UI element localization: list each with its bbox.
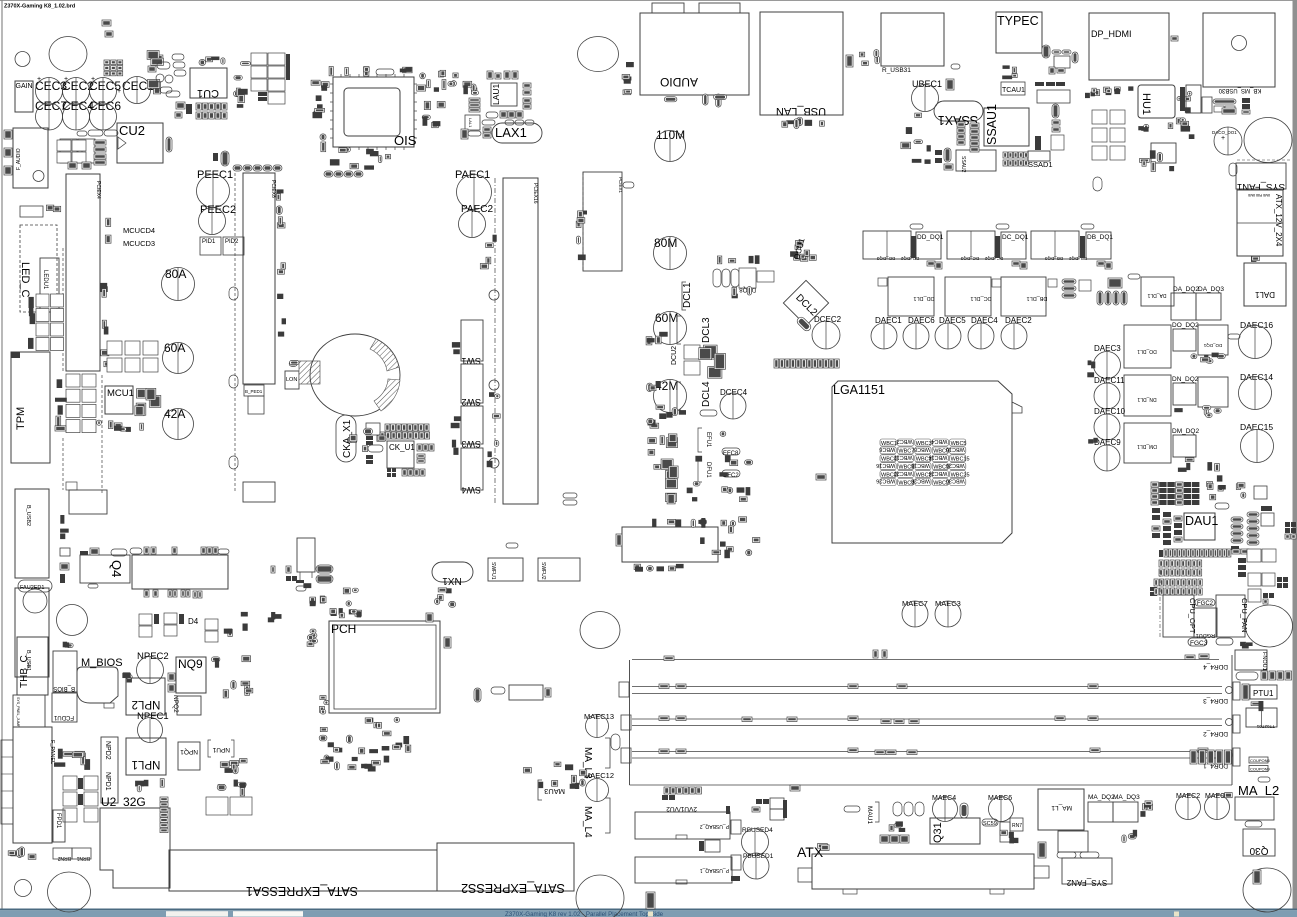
status bar button 1 (166, 911, 228, 916)
component right of DP_HDMI (1171, 36, 1178, 41)
svg-text:CPU_OPT: CPU_OPT (1188, 598, 1197, 634)
component NPU1 (208, 740, 234, 757)
svg-text:PCIEX1: PCIEX1 (618, 177, 623, 194)
svg-text:WBC3: WBC3 (916, 441, 932, 447)
resistor grid WBC (876, 438, 969, 486)
component DBC16 stadium (376, 69, 394, 75)
component cluster NE of DAU1 (1207, 475, 1246, 500)
component DQ3/DQ8 block (60, 139, 106, 165)
component IAD1 (1000, 822, 1010, 842)
component PAD bits left (1150, 587, 1157, 596)
IC LAU1 (491, 83, 517, 106)
connector U2_32G (100, 795, 170, 888)
component rotated stadium near DCL2 (796, 316, 813, 333)
connector B_USB2 (15, 489, 49, 578)
connector SYS_FAN1 (1236, 163, 1286, 192)
svg-text:EFU1: EFU1 (705, 432, 711, 448)
capacitor DAEC14 (1239, 372, 1274, 410)
component bits below DD_DQ1 (927, 261, 942, 269)
component cluster below PCH (319, 717, 411, 771)
IC DACCL1 (1151, 143, 1176, 163)
component cluster above OIS (329, 67, 412, 77)
svg-text:DCU2: DCU2 (671, 346, 678, 365)
svg-text:R_USB31: R_USB31 (882, 67, 911, 74)
IC NPL1 (126, 738, 166, 775)
capacitor NPEC2 (137, 651, 169, 684)
svg-text:ATX_12V_2X4: ATX_12V_2X4 (1274, 194, 1283, 247)
svg-text:DB_DQ1: DB_DQ1 (1087, 234, 1113, 241)
component cluster MCU mid (97, 420, 113, 429)
capacitor DAEC10 (1094, 407, 1126, 440)
component PCM stadium (1258, 777, 1270, 782)
svg-text:B_BIOS: B_BIOS (53, 685, 75, 691)
component cluster right of TYPEC (1042, 45, 1078, 74)
component dark box above SSAX1 (946, 64, 960, 90)
component right of USB_LAN (846, 55, 853, 67)
component column right of slot A (100, 218, 111, 366)
capacitor DAEC3 (1094, 344, 1122, 379)
svg-text:60M: 60M (655, 311, 678, 325)
capacitor DAEC16 (1239, 320, 1274, 359)
component BRN2 BRN1 (53, 848, 91, 861)
component LHD06 stadium (700, 410, 717, 416)
capacitor PEEC1 (197, 169, 234, 208)
capacitor MAEC12 (584, 771, 614, 802)
connector RGDU1 (1194, 608, 1217, 638)
IC MA_L1 (1038, 789, 1084, 830)
transistor Q31 (930, 818, 980, 844)
svg-text:USB_LAN: USB_LAN (776, 105, 826, 117)
svg-text:DA_DL1: DA_DL1 (1147, 292, 1166, 298)
IC MCU1 (105, 386, 134, 414)
component above PCH single (426, 613, 433, 622)
svg-text:WBC5: WBC5 (951, 441, 967, 447)
capacitor DCEC4 (720, 388, 748, 419)
svg-text:SYS_FAN2: SYS_FAN2 (1066, 878, 1107, 887)
svg-text:SW1: SW1 (461, 356, 481, 366)
mounting hole bottom-right (1243, 868, 1291, 912)
slot PCIEX1 (583, 172, 623, 271)
component pads right of CK_U1 (417, 444, 434, 463)
connector TYPEC (996, 12, 1042, 53)
component stadium right of slot E (623, 182, 634, 188)
component above PCH right (435, 595, 456, 608)
svg-text:SSAD1: SSAD1 (1028, 160, 1053, 169)
wire dash-dot left of slot D (494, 178, 496, 504)
IC LAL1 (461, 115, 481, 139)
component rows below vbox (303, 583, 358, 606)
F_AUDIO pin pads (4, 130, 12, 175)
label CKA_X1 stadium (336, 415, 356, 462)
svg-text:Q31: Q31 (932, 822, 944, 843)
capacitor MAEC6 (988, 795, 1014, 822)
svg-text:GAIN: GAIN (16, 83, 33, 90)
component LAX1 crystal (483, 123, 542, 143)
svg-text:U2_32G: U2_32G (101, 795, 146, 809)
svg-text:2VU1/VU2: 2VU1/VU2 (666, 805, 697, 812)
svg-text:LAL1: LAL1 (468, 118, 473, 128)
connector RGD bottom (1058, 831, 1088, 852)
svg-text:DO_DQ2: DO_DQ2 (1172, 322, 1199, 329)
connector AUDIO (640, 3, 749, 95)
IC DAU1 (1184, 513, 1218, 540)
capacitor round small 2 (489, 380, 499, 390)
IC MA_L2 (1235, 783, 1279, 820)
component cluster right of SSAU1 (1035, 82, 1070, 150)
component box mid-left (69, 490, 107, 514)
component rows right of NQ9 (211, 656, 252, 698)
capacitor PAEC1 (455, 169, 492, 210)
label column MXC (28, 297, 35, 349)
window top border (0, 0, 1297, 2)
capacitor MAEC2 (1176, 793, 1201, 820)
IC DD_DQ1 (916, 232, 944, 259)
component DFC2 (722, 470, 740, 479)
IC LOY2 boxes (1247, 549, 1276, 602)
component small box left (20, 206, 43, 217)
component cluster mid of LAU1 (463, 81, 479, 95)
svg-text:WBC12: WBC12 (894, 454, 913, 460)
component grid OQ bank (251, 53, 290, 104)
svg-text:SWFU2: SWFU2 (540, 562, 546, 580)
resistor row RN48 (324, 171, 363, 177)
component above center chip (652, 518, 707, 528)
component FGC3 (1188, 638, 1208, 647)
inductor DCL2 diamond (783, 280, 828, 325)
IC TCAU1 (1001, 82, 1025, 95)
svg-text:+: + (91, 76, 95, 83)
IC grid MCUC upper (107, 341, 158, 372)
svg-text:SW4: SW4 (461, 485, 481, 495)
svg-text:DAL1: DAL1 (1254, 290, 1275, 299)
IC SSAU1 (984, 104, 1029, 146)
capacitor DAEC6 (903, 316, 935, 349)
capacitor round small 3 (489, 458, 499, 468)
svg-text:8M8 P88 8M8: 8M8 P88 8M8 (1248, 193, 1270, 197)
svg-text:DAEC9: DAEC9 (1094, 438, 1121, 447)
svg-text:DD_DQ1: DD_DQ1 (917, 234, 944, 241)
component cluster right of CU1 (234, 62, 251, 108)
component SYS_PNEL_JUMP (13, 695, 45, 728)
connector SYS_FAN2 (1062, 858, 1112, 887)
svg-text:DM_DQ2: DM_DQ2 (1172, 428, 1199, 435)
svg-text:MAU1: MAU1 (866, 806, 873, 824)
component labels right of LAU1 (523, 83, 531, 109)
component C2W9 stadium (844, 806, 860, 812)
DIMM slot DDR4_2 (621, 715, 1240, 737)
component below center chip (634, 564, 684, 572)
component COUPON9 (1249, 766, 1271, 772)
component left of PTU1 (1242, 684, 1249, 700)
component grid top-left corner (104, 60, 123, 76)
svg-text:SC59: SC59 (983, 821, 997, 827)
IC DC_DL1 (945, 277, 1001, 316)
svg-text:DP_HDMI: DP_HDMI (1091, 29, 1132, 39)
component right of HU1 (1176, 91, 1192, 124)
component left of R_USB31 (859, 50, 879, 66)
svg-text:CEC6: CEC6 (89, 99, 121, 113)
svg-text:DN_DL1: DN_DL1 (1137, 396, 1156, 402)
svg-text:CU2: CU2 (119, 123, 145, 138)
IC DC_DQ2 DC_DQ3 pair (947, 231, 1003, 261)
capacitor UBEC1 (912, 79, 943, 112)
component FAC8 (1229, 163, 1237, 176)
IC DB_DQ2 DB_DQ3 pair (1031, 231, 1087, 261)
component bits right of pin row (1232, 549, 1249, 577)
wire dashed below grid (62, 438, 64, 490)
svg-text:DCEC4: DCEC4 (720, 388, 748, 397)
svg-text:LEDU1: LEDU1 (42, 270, 48, 290)
plus marks CEC (37, 76, 121, 95)
IC DO_DL1 (1124, 325, 1171, 368)
svg-text:MCU1: MCU1 (107, 388, 134, 399)
svg-text:MCUCD4: MCUCD4 (123, 226, 155, 235)
svg-text:DDR4_4: DDR4_4 (1203, 663, 1228, 670)
IC B_BIOS (53, 651, 77, 692)
component MA_L3 (582, 734, 620, 779)
svg-text:COUPON6: COUPON6 (1250, 758, 1271, 763)
pin header row DCQ16 (774, 359, 839, 368)
IC MA_DQ2 MA_DQ3 (1088, 794, 1140, 822)
component DA cluster (1097, 274, 1140, 305)
component bits around DCU2 (646, 332, 668, 345)
component bits below NPL1 (135, 779, 164, 792)
connector FNOU1 (1235, 650, 1267, 671)
component bits EFC cluster (687, 431, 753, 501)
svg-text:PAEC1: PAEC1 (455, 169, 490, 181)
svg-text:F_PANEL: F_PANEL (49, 740, 55, 764)
svg-text:FGC2: FGC2 (1197, 601, 1214, 607)
component SC08 stadium 1 (910, 224, 923, 229)
capacitor CEC3 (35, 78, 67, 105)
svg-text:NPQ2: NPQ2 (172, 695, 179, 713)
svg-text:DDR4_3: DDR4_3 (1203, 697, 1228, 704)
component SC59 (982, 819, 998, 827)
battery CKA_X1 holder (310, 334, 400, 416)
IC DCQ8 pair (739, 268, 774, 292)
IC SWFU1 (488, 558, 523, 581)
IC RPQ pair (206, 797, 252, 815)
svg-text:TT02T01: TT02T01 (1256, 724, 1275, 729)
component EFU1 bracket (698, 428, 711, 452)
component LON box (285, 371, 299, 389)
switch SW2 (461, 364, 483, 407)
component bits top area extra (102, 20, 113, 37)
component bits top of section (241, 612, 282, 622)
connector F_PANEL (13, 727, 55, 843)
status bar button 2 (233, 911, 303, 916)
component box small (66, 482, 77, 490)
component label column left of DAU1 (1152, 508, 1182, 545)
component bits MAEC mid (1122, 830, 1137, 843)
svg-text:CK_U1: CK_U1 (389, 443, 415, 452)
svg-text:WBC7: WBC7 (898, 449, 914, 455)
component bits near MA_L2 (1223, 793, 1232, 798)
connector CPU_OPT (1163, 595, 1197, 637)
component RSC6 (1245, 821, 1262, 827)
mounting hole bottom-left large (48, 872, 91, 912)
component labels left of SW (451, 342, 461, 455)
slot PCIEX16 main (503, 178, 538, 504)
svg-text:WBC26: WBC26 (876, 478, 895, 484)
inductor DCL3 (677, 316, 712, 344)
svg-text:MA_DQ2: MA_DQ2 (1088, 794, 1115, 801)
component bits DO rows (1191, 353, 1225, 364)
DIMM slot DDR4_1 (621, 748, 1240, 769)
connector LED_C dashed (19, 225, 57, 312)
svg-text:DC_DL1: DC_DL1 (970, 295, 991, 301)
component bits middle misc (732, 287, 752, 299)
capacitor 80A (162, 267, 195, 301)
capacitor 110M (655, 128, 686, 162)
capacitor MAEC7 (902, 599, 928, 627)
svg-text:MAU3: MAU3 (544, 787, 565, 796)
IC FCDU1 (52, 693, 77, 722)
svg-text:FGC3: FGC3 (1190, 640, 1208, 647)
capacitor CEC1 (122, 77, 154, 104)
connector USB_LAN (760, 12, 843, 117)
component rows RPC (217, 780, 246, 796)
component bits above DAL1 (1251, 256, 1259, 262)
IC DAC4 box (1254, 486, 1267, 499)
component stadium columns right of DAU1 (1231, 512, 1259, 550)
IC center-bottom large (622, 527, 718, 562)
svg-text:SSAU1: SSAU1 (985, 104, 999, 145)
component FNB row (880, 835, 909, 843)
svg-text:LON: LON (286, 377, 297, 383)
svg-text:CU1: CU1 (197, 87, 219, 99)
label column left of grid (55, 379, 67, 431)
component RNS8 (1038, 842, 1046, 858)
svg-text:DCL4: DCL4 (701, 381, 712, 407)
component cluster right of PBUSED (752, 798, 787, 820)
capacitor PBUSED1 (743, 853, 774, 879)
svg-text:D4: D4 (188, 617, 199, 626)
IC HU1 (1138, 85, 1175, 118)
svg-text:LAU1: LAU1 (491, 83, 501, 105)
svg-text:Q30: Q30 (1249, 845, 1268, 856)
connector FPD1 (53, 810, 65, 842)
mounting hole bottom center (576, 875, 624, 917)
transistor Q4 (80, 548, 130, 588)
component cluster left of PCH bottom (319, 696, 329, 714)
component AACL stadium (1093, 177, 1102, 191)
svg-text:DB_DL1: DB_DL1 (1027, 295, 1048, 301)
svg-text:DA_DQ2: DA_DQ2 (1173, 286, 1199, 293)
switch SW1 (461, 320, 483, 366)
svg-text:PAEC2: PAEC2 (461, 204, 493, 215)
component left of center chip (616, 534, 622, 546)
svg-text:WBC14: WBC14 (928, 454, 947, 460)
capacitor PEEC2 (199, 204, 237, 235)
IC DN_DL1 (1124, 375, 1171, 416)
component above PCH (330, 608, 361, 618)
connector NPD2 NPD1 (101, 737, 118, 803)
svg-text:PID1: PID1 (202, 239, 216, 245)
capacitor DAEC15 (1240, 422, 1274, 463)
IC NPL2 (126, 678, 165, 715)
svg-text:DCL1: DCL1 (682, 282, 693, 308)
component VQ3 box (60, 548, 70, 583)
component column left of EFC (647, 418, 665, 469)
IC DO_DQ2 (1172, 322, 1199, 351)
component column left of slot D 2 (487, 392, 501, 467)
capacitor DAEC1 (871, 316, 902, 349)
svg-text:DAU1: DAU1 (1185, 514, 1218, 528)
svg-text:DD_DQ3: DD_DQ3 (876, 256, 895, 261)
component stadium column after DB_DL1 (1062, 279, 1091, 298)
IC DM_DQ2 (1172, 428, 1199, 457)
component SC08 stadium 2 (996, 224, 1009, 229)
component bits left of Q4 (60, 515, 69, 539)
svg-text:WBC18: WBC18 (911, 462, 930, 468)
slot PCIE2 (243, 173, 276, 384)
component MAU3 (538, 780, 565, 800)
component cluster below MCU1 (114, 423, 143, 432)
window right scrollbar strip (1293, 0, 1297, 909)
svg-text:WBC28: WBC28 (911, 478, 930, 484)
component SC08 stadium 3 (1081, 224, 1094, 229)
component cluster below OIS (330, 147, 391, 169)
component left of PCH (307, 629, 317, 646)
svg-text:LED_C: LED_C (19, 262, 31, 298)
component left stadium pair (348, 435, 357, 443)
svg-text:F_AUDIO: F_AUDIO (16, 148, 22, 170)
svg-text:DC_DQ2: DC_DQ2 (984, 256, 1003, 261)
svg-text:PCIEX4: PCIEX4 (95, 181, 101, 199)
IC PCH (329, 621, 440, 713)
component bits right of D4 (224, 624, 248, 637)
component bits below NX1 (438, 588, 451, 593)
svg-text:B_PED1: B_PED1 (245, 389, 263, 394)
pin grid 1 (1159, 560, 1202, 576)
svg-text:SWFU1: SWFU1 (490, 562, 496, 580)
component column left of AUDIO (622, 62, 634, 95)
capacitor DAEC4 (968, 316, 998, 349)
component 6D stadium (213, 151, 229, 166)
component bits above LON (289, 361, 299, 367)
component column near CEC (147, 51, 163, 94)
svg-text:WBC24: WBC24 (928, 470, 947, 476)
component MW vertical (646, 892, 655, 909)
IC SWFU2 (538, 558, 580, 581)
svg-text:Z370X-Gaming K8 rev 1.02 - Par: Z370X-Gaming K8 rev 1.02 - Parallel Plac… (505, 911, 664, 917)
component MBC small (816, 474, 826, 480)
inductor DCL1 (682, 282, 693, 310)
component cluster MAU3 bits (524, 762, 587, 789)
component column left of slot D (480, 235, 496, 269)
slot PCIE_X4 (66, 174, 101, 371)
capacitor DACO_DO1 (1212, 127, 1242, 155)
svg-text:SATA_EXPRESS2: SATA_EXPRESS2 (461, 881, 565, 895)
component grid LED drivers (36, 294, 64, 351)
IC DB_DL1 (1001, 277, 1057, 316)
wire dashed left of slot B (234, 173, 236, 492)
component labels right of panel (54, 749, 90, 770)
component bits NPQ area (220, 759, 247, 774)
connector R_USB31 (881, 13, 944, 74)
component above SSAU1 (1002, 65, 1017, 79)
svg-text:NPQ1: NPQ1 (180, 748, 198, 755)
component RN7 (1010, 818, 1023, 831)
component FBC2 FBC3 (1057, 852, 1099, 858)
component DAC cluster (1181, 121, 1195, 139)
svg-text:NPU1: NPU1 (212, 746, 230, 753)
connector F_AUDIO (13, 128, 48, 188)
pin row below DAU1 (1159, 549, 1231, 557)
svg-text:BRN2: BRN2 (57, 855, 71, 861)
IC DO_DQ1 (1198, 325, 1228, 355)
